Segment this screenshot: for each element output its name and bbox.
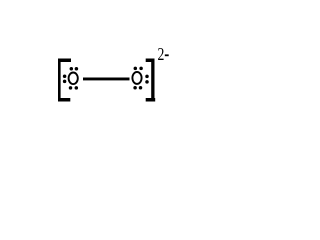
lone pair O2 bottom xyxy=(133,86,142,90)
lone pair O1 top xyxy=(70,67,79,71)
oxygen O1 xyxy=(69,73,78,85)
bond O1-O2 xyxy=(83,78,130,81)
right bracket xyxy=(146,59,156,102)
oxygen O2 xyxy=(132,72,141,84)
lone pair O2 right xyxy=(145,75,149,84)
left bracket xyxy=(58,59,71,102)
svg-text:2: 2 xyxy=(158,45,165,64)
lone pair O1 left xyxy=(63,75,67,84)
lone pair O2 top xyxy=(134,67,143,71)
lone pair O1 bottom xyxy=(69,86,78,90)
